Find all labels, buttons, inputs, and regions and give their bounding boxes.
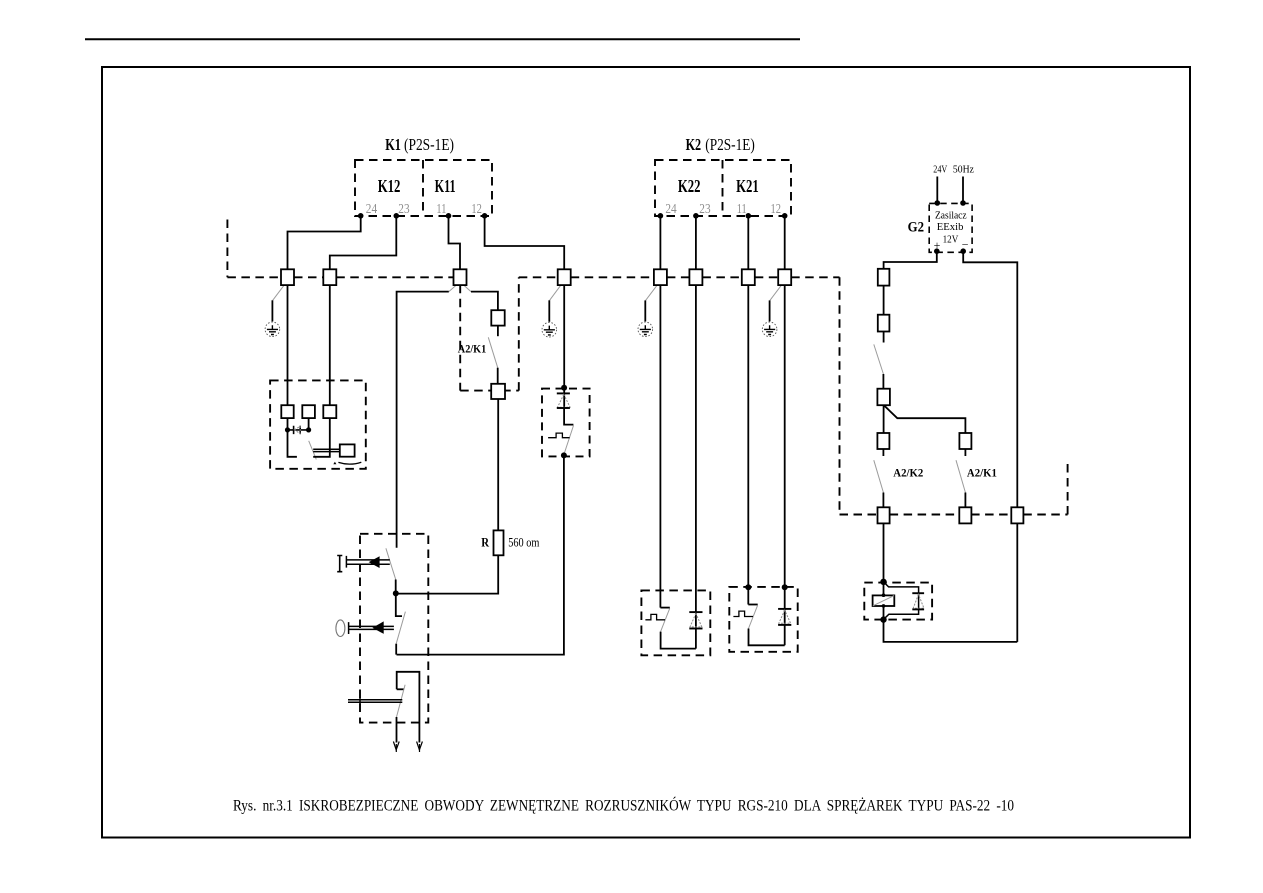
button I arrow — [369, 556, 380, 568]
terminal square K1-11 — [454, 269, 467, 285]
button O symbol — [336, 620, 345, 637]
pin dots K2 — [658, 213, 664, 219]
wire K1 pin23 to terminal — [330, 218, 397, 269]
svg-text:EExib: EExib — [937, 222, 964, 233]
wire K2 pin12 down — [784, 218, 786, 645]
K22 contact stub — [660, 607, 669, 609]
contact blade A2/K1 — [488, 337, 497, 367]
terminal square K1-24 — [281, 269, 294, 285]
svg-text:11: 11 — [737, 202, 747, 217]
wire K2 pin23 down — [695, 218, 697, 649]
wire K1 pin11 to terminal — [449, 218, 461, 269]
wire blade to junction — [395, 580, 397, 594]
interlock contact bridge — [397, 672, 420, 743]
svg-text:A2/K1: A2/K1 — [458, 341, 487, 355]
terminal square K1-23 — [323, 269, 336, 285]
terminal square lower minus line — [1011, 507, 1023, 523]
ground symbol under K2 terminal 24 — [638, 285, 657, 337]
terminal square on barrier detour — [491, 384, 505, 399]
svg-text:24: 24 — [665, 202, 676, 217]
svg-text:12V: 12V — [943, 234, 959, 245]
svg-text:24: 24 — [366, 202, 377, 217]
thermal actuator — [548, 433, 570, 438]
svg-text:(P2S-1E): (P2S-1E) — [705, 135, 755, 154]
series box 2 — [878, 315, 890, 332]
sensor blade — [309, 441, 317, 460]
wire to resistor — [497, 399, 499, 530]
dashed detour around contact A2/K1 — [459, 285, 461, 391]
terminal square K2-11 — [742, 269, 755, 285]
K22 contact blade — [661, 608, 670, 631]
pin labels K1 — [366, 202, 781, 217]
wire K1 pin12 to terminal — [485, 218, 565, 269]
branch to A2/K1 — [884, 405, 966, 433]
relay box under K21 — [729, 587, 797, 652]
junction node — [561, 452, 567, 458]
box above contact A2/K1 right — [959, 433, 971, 449]
relay diode branch — [884, 582, 919, 620]
wire to terminal — [497, 368, 499, 384]
wire terminal K11 down to diode box — [563, 285, 565, 408]
relay block K2 dashed outline — [655, 160, 791, 216]
svg-text:R: R — [481, 536, 490, 550]
wire terminal1 down into sensor — [287, 285, 289, 406]
junction node — [393, 590, 399, 596]
start contact blade — [386, 548, 396, 579]
svg-text:K12: K12 — [378, 176, 401, 196]
wire stop contact down — [395, 644, 397, 655]
junction node — [561, 385, 567, 391]
wire junction to stop contact — [396, 593, 402, 616]
supply input dots — [935, 200, 941, 206]
dashed box diode + thermal contact — [542, 389, 590, 457]
wire down and across to pushbuttons — [397, 455, 564, 654]
K21 contact blade — [749, 605, 758, 628]
svg-text:24V: 24V — [933, 164, 947, 176]
wire — [964, 493, 966, 508]
svg-text:23: 23 — [398, 202, 409, 217]
svg-text:K1: K1 — [385, 135, 401, 154]
K21 actuator — [733, 611, 753, 616]
terminal square K2-23 — [689, 269, 702, 285]
resistor R — [494, 530, 504, 555]
interlock stub — [397, 688, 404, 690]
junction node — [782, 584, 788, 590]
top rule — [85, 38, 800, 40]
wire stub right — [964, 449, 966, 456]
box above contact A2/K2 — [877, 433, 889, 449]
K21 diode — [778, 609, 791, 625]
svg-text:A2/K1: A2/K1 — [967, 466, 997, 480]
svg-text:12: 12 — [471, 202, 482, 217]
svg-text:Rys. nr.3.1 ISKROBEZPIECZNE: Rys. nr.3.1 ISKROBEZPIECZNE OBWODY ZEWNĘ… — [233, 796, 1014, 815]
wire diode to contact — [564, 408, 573, 425]
sensor contact square 1 — [281, 405, 293, 418]
pressure sensor dashed box — [270, 380, 366, 468]
relay coil — [873, 595, 895, 606]
ground symbol under terminal 1 — [265, 285, 284, 337]
sensor diode link — [288, 426, 309, 434]
button O actuator rod — [349, 622, 394, 634]
svg-text:11: 11 — [436, 202, 446, 217]
ground symbol under K2 terminal 12 — [762, 285, 781, 337]
supply wires — [937, 177, 963, 202]
thermal contact blade — [564, 426, 574, 455]
svg-text:560 om: 560 om — [508, 536, 539, 550]
sensor contact square 3 — [323, 405, 336, 418]
wire square2 down — [308, 418, 310, 430]
pin dots K1 — [358, 213, 788, 219]
sensor contact square 2 — [302, 405, 315, 418]
terminal square K1-12 — [558, 269, 571, 285]
sensor arc — [338, 462, 361, 464]
relay box under K22 — [641, 590, 710, 655]
contact blade A2/K1 right — [956, 460, 965, 492]
svg-text:A2/K2: A2/K2 — [893, 466, 923, 480]
wire left branch — [883, 405, 885, 433]
svg-text:12: 12 — [771, 202, 782, 217]
wire square3 down — [313, 418, 330, 457]
svg-text:K11: K11 — [435, 176, 456, 196]
contact blade A2/K2 — [874, 460, 884, 492]
svg-text:K21: K21 — [736, 176, 759, 196]
junction node — [880, 616, 886, 622]
wire terminal2 down into sensor — [329, 285, 331, 406]
K22 diode — [689, 612, 702, 628]
K22 contact lower wire — [661, 632, 696, 649]
arrow end right — [417, 742, 423, 750]
diode D (cathode bar, dotted triangle, anode bar) — [557, 393, 570, 408]
ground symbol under terminal K11-12 — [542, 285, 561, 337]
svg-text:Zasilacz: Zasilacz — [935, 210, 967, 221]
relay block K1 dashed outline — [355, 160, 492, 216]
svg-text:K22: K22 — [678, 176, 701, 196]
wire to contact A2/K1 — [471, 292, 498, 311]
button I symbol — [337, 556, 342, 572]
terminal square K2-12 — [778, 269, 791, 285]
arrow end left — [393, 742, 399, 750]
K21 contact lower wire — [749, 629, 785, 646]
dashed barrier bus right descent — [839, 277, 841, 514]
wire resistor to junction — [396, 555, 498, 593]
power supply G2 dashed box — [929, 203, 972, 252]
wire K1 pin24 to terminal — [288, 218, 361, 269]
wire — [882, 493, 884, 508]
svg-text:(P2S-1E): (P2S-1E) — [404, 135, 454, 154]
K2 block divider — [722, 160, 724, 216]
sensor membrane double bar — [313, 449, 340, 451]
button I actuator rod — [346, 556, 389, 568]
wire — [883, 332, 885, 343]
relay coil dashed box — [864, 583, 932, 620]
junction node — [285, 427, 290, 432]
terminal square lower A2/K2 — [878, 507, 890, 523]
wire K2 pin11 down — [747, 218, 749, 605]
svg-text:23: 23 — [699, 202, 710, 217]
contact A2/K1 upper branch: split diagonals under terminal — [449, 285, 457, 292]
supply output dots — [934, 248, 940, 254]
series box 1 — [878, 269, 890, 286]
K1 block divider — [422, 160, 424, 216]
stop contact blade — [396, 612, 405, 644]
coil wire — [883, 582, 885, 620]
wire square1 down with stub — [288, 418, 297, 457]
wire stub — [882, 449, 884, 456]
interlock actuator double bar — [348, 697, 402, 704]
pushbutton assembly dashed box — [360, 534, 428, 723]
terminal square lower A2/K1 — [959, 507, 971, 523]
junction node — [306, 427, 311, 432]
relay diode — [912, 593, 924, 609]
interlock wire down — [396, 717, 398, 743]
contact blade — [874, 344, 884, 374]
wire to relay — [883, 523, 885, 581]
sensor end box — [340, 444, 355, 456]
sensor arc marker — [333, 462, 336, 465]
junction node — [880, 579, 886, 585]
junction node — [745, 584, 751, 590]
interlock blade — [397, 685, 406, 717]
wire to pushbutton feed — [397, 292, 449, 548]
terminal square K2-24 — [654, 269, 667, 285]
svg-text:K2: K2 — [686, 135, 702, 154]
wire stub — [497, 326, 499, 337]
series box 3 — [877, 389, 890, 406]
svg-text:G2: G2 — [908, 219, 924, 235]
K22 actuator — [645, 614, 665, 619]
component box above contact A2/K1 — [491, 310, 504, 325]
wire minus branch down right side — [963, 251, 1017, 642]
svg-text:50Hz: 50Hz — [953, 164, 974, 176]
wire plus branch — [884, 251, 937, 269]
wire — [882, 374, 884, 389]
wire relay to minus — [884, 620, 1018, 642]
border frame — [102, 67, 1190, 838]
K21 contact stub — [748, 604, 757, 606]
dashed barrier bus upper — [227, 220, 1067, 515]
button O arrow — [372, 621, 383, 634]
wire — [883, 286, 885, 315]
wire K2 pin24 down — [659, 218, 661, 608]
